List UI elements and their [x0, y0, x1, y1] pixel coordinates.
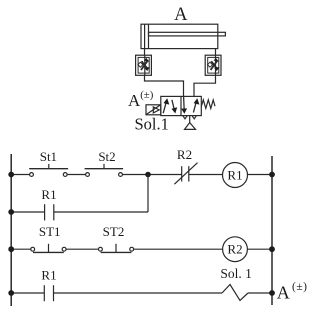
ladder right rail [271, 156, 273, 305]
svg-text:(±): (±) [292, 281, 307, 293]
flow control valve left (box with check arrows) [136, 55, 152, 75]
cylinder rod [149, 32, 226, 36]
exhaust triangle [185, 123, 196, 130]
label A (±) output [277, 281, 308, 303]
pushbutton contact St1 [29, 164, 68, 177]
svg-text:ST2: ST2 [103, 224, 125, 239]
NO contact R1 (rung 4) [44, 285, 53, 301]
NO contact R1 (rung 2) [45, 204, 54, 220]
relay coil R1 [223, 163, 248, 188]
wire cylinder left port down [144, 49, 146, 56]
exhaust port arrows [183, 116, 196, 119]
return spring [201, 100, 215, 109]
solenoid actuator Sol.1 box [146, 105, 161, 115]
svg-text:R2: R2 [227, 242, 242, 257]
svg-text:R1: R1 [41, 268, 56, 283]
flow control valve right (box with check arrows) [205, 55, 221, 75]
limit switch contact ST1 [31, 244, 66, 253]
valve right position arrows [181, 97, 199, 114]
svg-text:St2: St2 [98, 149, 115, 164]
svg-text:Sol. 1: Sol. 1 [220, 266, 252, 281]
svg-text:(±): (±) [140, 89, 154, 101]
svg-text:A: A [277, 283, 290, 303]
ladder left rail [10, 154, 12, 306]
junction node rung1/branch [145, 172, 151, 178]
pushbutton contact St2 [85, 164, 124, 177]
svg-text:A: A [128, 91, 141, 110]
valve 4/2 body [161, 96, 202, 115]
exhaust stem [189, 116, 191, 123]
svg-text:ST1: ST1 [39, 224, 61, 239]
relay coil R2 [223, 237, 248, 262]
cylinder piston [145, 24, 149, 48]
NC contact R2 [174, 163, 197, 185]
rung 2 branch wire [11, 175, 148, 213]
limit switch contact ST2 [99, 244, 134, 253]
svg-text:St1: St1 [40, 149, 57, 164]
wire right box to valve port [194, 75, 216, 96]
svg-text:R2: R2 [177, 147, 192, 162]
svg-text:Sol.1: Sol.1 [135, 114, 169, 133]
rung 1 wire segments [11, 174, 272, 176]
solenoid Sol.1 zigzag element [222, 285, 248, 301]
cylinder A body [141, 24, 218, 48]
node dots right rail [269, 172, 275, 296]
wire cylinder right port down [215, 49, 217, 56]
svg-text:R1: R1 [227, 168, 242, 183]
svg-text:A: A [174, 5, 188, 25]
rung 3 wire segments [11, 248, 272, 250]
rung 4 wire segments [11, 292, 272, 294]
wire left box to valve port [145, 75, 184, 96]
valve left position arrows [163, 98, 177, 113]
node dots left rail [8, 172, 14, 296]
svg-text:R1: R1 [41, 187, 56, 202]
